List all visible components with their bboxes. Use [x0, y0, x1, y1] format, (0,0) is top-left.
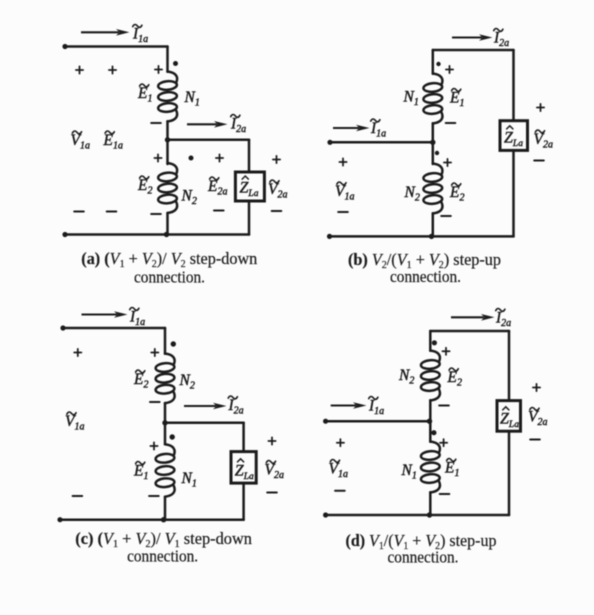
wire c bottom horizontal: [60, 518, 244, 521]
plus left column (c): [74, 349, 81, 356]
wire d load drop upper: [508, 331, 511, 401]
minus under V2a (a): [272, 210, 282, 212]
label I2a (d): [495, 308, 511, 329]
minus at V1a (b): [338, 211, 348, 213]
wire b load drop upper: [512, 50, 515, 121]
wire b upper lead: [432, 50, 435, 74]
label E1 (d): [444, 458, 459, 479]
inductor N1 (d): [421, 442, 440, 493]
plus at top of winding N2 (b): [444, 159, 451, 166]
load box ZLa (d): [497, 401, 521, 432]
node b source bottom terminal: [327, 234, 332, 239]
svg-text:ZLa: ZLa: [500, 411, 519, 431]
wire a vertical upper lead: [166, 47, 169, 72]
label N1 (a): [184, 89, 200, 109]
svg-text:I2a: I2a: [230, 116, 246, 136]
svg-text:V1a: V1a: [71, 132, 90, 152]
svg-text:E1a: E1a: [103, 132, 123, 152]
svg-text:E2: E2: [133, 371, 148, 391]
node c source top-left terminal: [60, 325, 65, 330]
label N2 (a): [181, 188, 197, 208]
wire b top horizontal: [433, 49, 514, 52]
inductor N1 (a): [158, 72, 177, 122]
node d mid junction: [427, 419, 432, 424]
plus at V1a (d): [337, 439, 344, 446]
circuit (d) step-up connection: [323, 308, 547, 566]
svg-text:E2a: E2a: [207, 178, 227, 198]
label N2 (d): [398, 367, 414, 387]
wire a lower lead to bottom: [166, 213, 169, 235]
plus at top of winding N1 (b): [446, 66, 453, 73]
svg-text:V2a: V2a: [534, 131, 553, 151]
current arrow I1a (a): [81, 29, 130, 36]
wire b lower lead: [432, 213, 435, 236]
node d source top terminal: [323, 419, 328, 424]
plus at top of winding N1 (c): [150, 442, 157, 449]
minus at bottom of winding N1 (a): [151, 122, 161, 124]
node b source top terminal: [327, 140, 332, 145]
svg-text:V2a: V2a: [528, 409, 547, 429]
label E1a (a): [103, 131, 123, 152]
node a junction tap: [165, 137, 170, 142]
wire c between windings: [164, 403, 167, 444]
label V1a (a): [71, 131, 90, 152]
label N1 (d): [401, 462, 417, 482]
minus at bottom of winding N2 (d): [439, 405, 449, 407]
minus column left inner (a): [107, 211, 117, 213]
wire d lower lead: [429, 492, 432, 515]
current arrow I1a (d): [331, 402, 367, 409]
wire c vertical upper lead: [164, 328, 167, 354]
load box ZLa (c): [231, 452, 256, 484]
svg-text:E2: E2: [447, 369, 462, 389]
label I1a (a): [132, 24, 148, 45]
svg-text:E2: E2: [137, 177, 152, 197]
svg-text:N1: N1: [181, 470, 197, 490]
svg-text:connection.: connection.: [127, 547, 198, 566]
svg-text:E1: E1: [449, 90, 464, 110]
current arrow I2a (c): [184, 403, 227, 410]
plus at V2a (d): [533, 384, 540, 391]
wire d top horizontal: [430, 330, 509, 333]
svg-text:N1: N1: [184, 89, 200, 109]
circuit (c) step-down connection: [57, 307, 284, 565]
wire a top horizontal: [65, 45, 168, 48]
load box ZLa (a): [235, 172, 264, 201]
svg-text:N2: N2: [181, 188, 197, 208]
plus at top of winding N2 (d): [442, 348, 449, 355]
polarity dot of winding N2 (a): [189, 156, 194, 161]
label V2a (c): [265, 460, 284, 481]
circuit (a) step-down connection: [62, 24, 287, 286]
node d source bottom terminal: [323, 512, 328, 517]
minus at bottom of winding N2 (c): [150, 401, 160, 403]
wire d bottom horizontal: [326, 514, 509, 517]
polarity dot of winding N1 (c): [170, 434, 175, 439]
label I2a (a): [230, 114, 246, 135]
label I1a (c): [129, 307, 145, 328]
wire a load drop lower: [248, 201, 251, 235]
svg-text:I2a: I2a: [228, 397, 244, 417]
inductor N1 (c): [155, 444, 174, 496]
label N1 (c): [181, 470, 197, 490]
label ZLa (c): [235, 459, 254, 482]
wire d middle horizontal: [326, 420, 431, 423]
label N2 (c): [179, 372, 195, 392]
plus at top of winding N2 (a): [154, 154, 161, 161]
label E2 (d): [447, 368, 462, 389]
label V2a (a): [268, 180, 287, 201]
svg-text:N1: N1: [401, 462, 417, 482]
svg-text:I1a: I1a: [132, 26, 148, 46]
label V1a (c): [65, 412, 84, 433]
label E1 (a): [137, 84, 152, 105]
svg-text:ZLa: ZLa: [504, 130, 523, 150]
svg-text:I1a: I1a: [370, 120, 386, 140]
plus at V2a (c): [268, 437, 275, 444]
minus at bottom of winding N2 (b): [441, 215, 451, 217]
polarity dot of winding N1 (d): [431, 430, 436, 435]
svg-text:I1a: I1a: [129, 309, 145, 329]
minus at V2a (d): [530, 439, 540, 441]
plus column left outer (a): [76, 66, 83, 73]
wire b bottom horizontal: [330, 235, 514, 238]
label V2a (d): [528, 407, 547, 428]
wire c top horizontal: [63, 327, 165, 330]
wire b lead to mid junction: [432, 123, 435, 164]
current arrow I2a (b): [452, 34, 493, 41]
node a bottom junction: [164, 232, 169, 237]
svg-text:I2a: I2a: [495, 310, 511, 330]
wire a bottom horizontal: [65, 233, 249, 236]
polarity dot of winding N2 (c): [171, 341, 176, 346]
plus at top of winding N1 (d): [440, 439, 447, 446]
inductor N1 (b): [423, 74, 442, 124]
inductor N2 (b): [423, 164, 442, 214]
label I1a (d): [368, 396, 384, 417]
node d bottom junction: [427, 512, 432, 517]
svg-text:I1a: I1a: [368, 398, 384, 418]
minus left column (c): [73, 495, 83, 497]
node b bottom junction: [429, 234, 434, 239]
label N2 (b): [404, 184, 420, 204]
minus under E2a (a): [214, 210, 224, 212]
svg-text:V1a: V1a: [335, 183, 354, 203]
svg-text:connection.: connection.: [388, 548, 459, 567]
polarity dot of winding N1 (b): [436, 62, 440, 66]
inductor N2 (c): [155, 354, 174, 404]
minus at V1a (d): [335, 490, 345, 492]
node a1 source top-left terminal: [62, 44, 67, 49]
node a bottom-left terminal: [62, 232, 67, 237]
current arrow I1a (b): [333, 125, 370, 132]
plus at top of winding N1 (a): [155, 66, 162, 73]
svg-text:E2: E2: [449, 184, 464, 204]
wire c load drop lower: [242, 483, 245, 520]
svg-text:E1: E1: [133, 463, 148, 483]
polarity dot of winding N2 (b): [435, 151, 439, 155]
label E1 (c): [133, 461, 148, 482]
inductor N2 (d): [421, 351, 440, 401]
label ZLa (d): [500, 407, 519, 430]
wire b middle horizontal: [330, 141, 433, 144]
svg-text:N2: N2: [179, 372, 195, 392]
svg-text:N1: N1: [403, 89, 419, 109]
plus at E2a (a): [216, 154, 223, 161]
label I2a (b): [493, 28, 509, 49]
svg-text:connection.: connection.: [134, 268, 205, 287]
node c junction tap: [162, 420, 167, 425]
minus at V2a (c): [267, 492, 277, 494]
minus column left outer (a): [74, 211, 84, 213]
label E2 (c): [133, 370, 148, 391]
svg-text:E1: E1: [137, 85, 152, 105]
svg-text:N2: N2: [404, 184, 420, 204]
label I1a (b): [370, 119, 386, 140]
label E2 (a): [137, 176, 152, 197]
minus at V2a (b): [534, 160, 544, 162]
current arrow I1a (c): [82, 311, 128, 318]
minus at bottom of winding N1 (d): [440, 493, 450, 495]
svg-text:ZLa: ZLa: [235, 463, 254, 483]
load box ZLa (b): [500, 121, 528, 151]
wire d lead to mid junction: [429, 400, 432, 442]
node c bottom-left terminal: [57, 517, 62, 522]
svg-text:N2: N2: [398, 367, 414, 387]
inductor N2 (a): [158, 163, 177, 213]
wire b load drop lower: [512, 150, 515, 236]
minus at bottom of winding N2 (a): [151, 213, 161, 215]
polarity dot of winding N2 (d): [432, 340, 437, 345]
label V2a (b): [534, 130, 553, 151]
wire c lower lead: [164, 497, 167, 520]
wire d load drop lower: [508, 431, 511, 515]
label I2a (c): [228, 396, 244, 417]
svg-text:V1a: V1a: [65, 413, 84, 433]
wire d upper lead: [429, 331, 432, 351]
node b mid junction: [430, 140, 435, 145]
wire c load drop upper: [242, 423, 245, 452]
svg-text:V1a: V1a: [329, 461, 348, 481]
current arrow I2a (d): [451, 314, 495, 321]
svg-text:I2a: I2a: [493, 30, 509, 50]
plus at V1a (b): [339, 158, 346, 165]
label ZLa (a): [240, 176, 259, 199]
polarity dot of winding N1 (a): [173, 61, 178, 66]
wire a tap to load top: [168, 139, 250, 142]
label E2 (b): [449, 183, 464, 204]
plus at V2a (b): [537, 104, 544, 111]
label V1a (b): [335, 182, 354, 203]
label E2a (a): [207, 177, 227, 198]
label V1a (d): [329, 459, 348, 480]
svg-text:connection.: connection.: [390, 267, 461, 286]
minus at bottom of winding N1 (b): [446, 122, 456, 124]
node c bottom junction: [161, 517, 166, 522]
svg-text:E1: E1: [444, 460, 459, 480]
svg-text:V2a: V2a: [268, 181, 287, 201]
wire a load drop upper: [248, 140, 251, 172]
svg-text:ZLa: ZLa: [240, 180, 259, 200]
label N1 (b): [403, 89, 419, 109]
minus at bottom of winding N1 (c): [149, 495, 159, 497]
plus at V2a (a): [273, 156, 280, 163]
circuit (b) step-up connection: [327, 28, 553, 286]
current arrow I2a (a): [187, 121, 228, 128]
wire a between windings: [166, 121, 169, 164]
svg-text:V2a: V2a: [265, 462, 284, 482]
plus at top of winding N2 (c): [151, 349, 158, 356]
label E1 (b): [449, 88, 464, 109]
label ZLa (b): [504, 126, 523, 149]
wire c tap to load top: [165, 422, 244, 425]
plus column left inner (a): [109, 66, 116, 73]
